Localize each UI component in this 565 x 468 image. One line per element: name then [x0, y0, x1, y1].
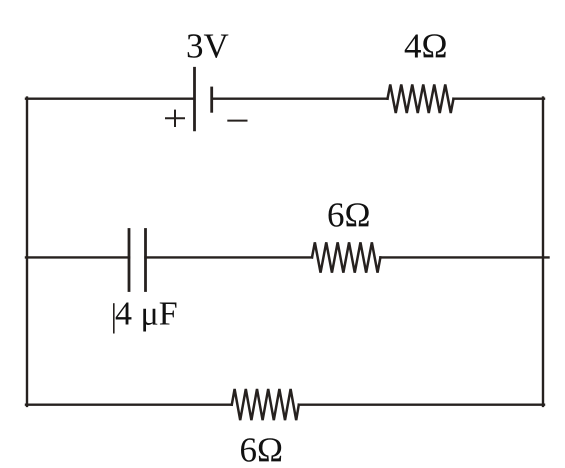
wire: resistor R1 to top-right corner	[454, 97, 545, 99]
battery V1 long plate (+)	[193, 68, 196, 130]
svg-text:3V: 3V	[186, 27, 229, 66]
resistor R1 4ohm zigzag	[388, 85, 454, 114]
wire: resistor R3 to bottom-right corner	[299, 404, 544, 406]
wire: top-left segment to battery	[26, 97, 193, 99]
battery plus sign	[166, 117, 184, 119]
capacitor label stray bar	[113, 304, 115, 333]
wire: bottom-left segment to resistor R3	[26, 404, 232, 406]
battery V1 short plate (-)	[210, 88, 213, 111]
battery minus sign	[228, 120, 246, 122]
wire: capacitor to resistor R2	[146, 256, 313, 258]
resistor R2 6ohm zigzag	[312, 242, 380, 272]
capacitor C1 left plate	[128, 230, 131, 291]
capacitor C1 right plate	[144, 230, 147, 291]
svg-text:6Ω: 6Ω	[240, 431, 284, 468]
wire: left vertical	[26, 98, 28, 406]
wire: middle-left segment to capacitor	[26, 256, 129, 258]
svg-text:4 μF: 4 μF	[115, 295, 178, 332]
resistor R3 6ohm zigzag	[232, 389, 299, 420]
svg-text:4Ω: 4Ω	[404, 27, 448, 66]
wire: battery to resistor R1	[213, 97, 388, 99]
svg-text:6Ω: 6Ω	[327, 196, 371, 235]
wire: resistor R2 to right stub past right wire	[380, 256, 548, 258]
wire: right vertical	[542, 98, 544, 406]
